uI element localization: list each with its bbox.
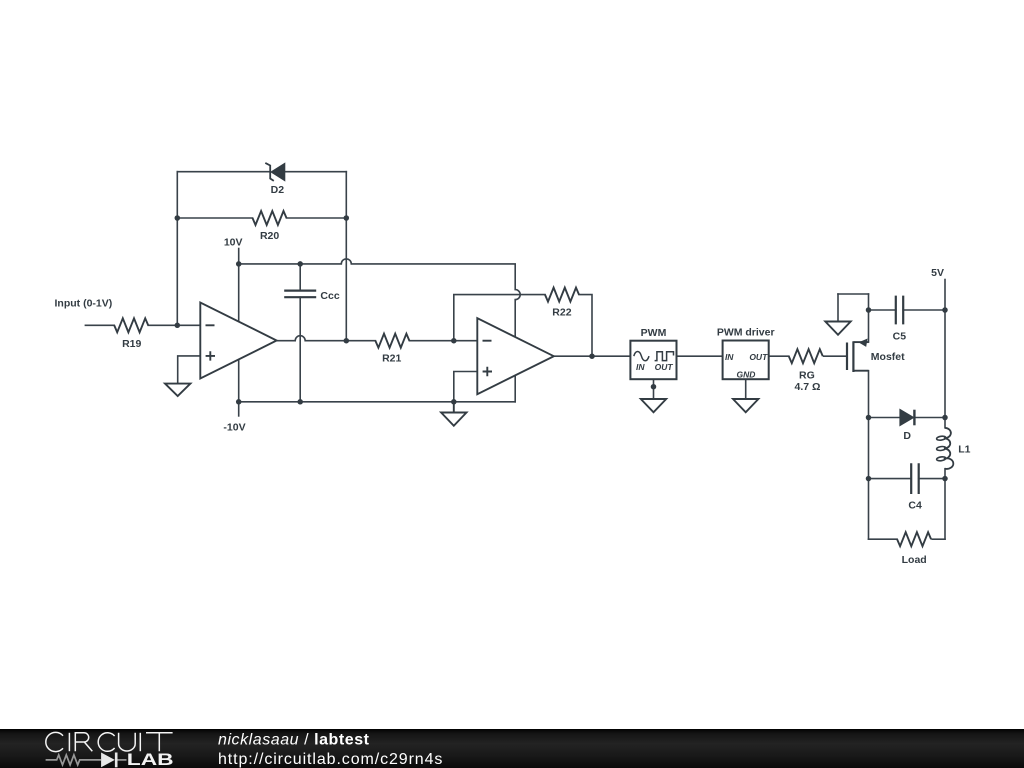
resistor R22	[545, 288, 579, 302]
node: 10V rail junction	[236, 261, 242, 267]
node: op-amp U2 inverting junction	[451, 338, 457, 344]
wire: positive supply rail with hop over feedback wire, corner down to op-amp U2 V+ with hop over R22 wire	[239, 259, 521, 402]
node: U2 plus / ground rail junction	[451, 399, 457, 405]
node: C5 / 5V rail junction	[942, 307, 948, 313]
svg-text:PWM driver: PWM driver	[717, 327, 775, 339]
svg-text:R20: R20	[260, 230, 279, 242]
node: op-amp U1 output feedback junction	[344, 338, 350, 344]
capacitor C4 plates	[911, 463, 919, 494]
logo CIRCUIT letter C	[46, 732, 173, 751]
resistor Load	[897, 532, 931, 546]
wire: top loop horizontal, left lead of D2	[177, 171, 270, 173]
svg-text:Load: Load	[902, 554, 927, 566]
capacitor Ccc plates	[284, 291, 316, 298]
wire: left vertical from diode row to C4 row	[868, 418, 870, 479]
op-amp U2 minus sign	[483, 340, 492, 342]
svg-text:-10V: -10V	[223, 422, 245, 434]
wire: Load left lead	[869, 538, 898, 540]
wire: ground stub below U2 plus rail node	[453, 402, 455, 413]
resistor R19	[114, 318, 148, 332]
PWM block sine symbol	[634, 351, 649, 360]
transistor Mosfet arrow	[860, 339, 867, 346]
wire: op-amp U1 non-inverting input to ground	[178, 356, 201, 384]
wire: right vertical from C4 row to Load row	[944, 479, 946, 540]
wire: PWM block to PWM driver block	[677, 355, 723, 357]
wire: op-amp U1 output with hop over Ccc wire, to feedback node	[277, 336, 347, 341]
transistor Mosfet drain stub	[853, 341, 868, 343]
wire: left feedback vertical (top loop to inverting input)	[176, 172, 178, 326]
svg-text:R22: R22	[552, 307, 571, 319]
wire: L1 bottom lead	[944, 469, 946, 479]
capacitor C5 plates	[896, 296, 903, 325]
op-amp U1 triangle	[200, 303, 276, 379]
node: C4 left junction	[866, 476, 872, 482]
svg-text:RG: RG	[799, 370, 815, 382]
node: R20 left junction	[175, 215, 181, 221]
logo CIRCUIT letter C	[98, 733, 114, 752]
node: C4 right junction	[942, 476, 948, 482]
wire: right feedback vertical from top loop down to op-amp1 output	[345, 172, 347, 341]
PWM block box	[630, 341, 676, 380]
wire: R20 right lead	[287, 217, 347, 219]
transistor Mosfet channel bar	[852, 341, 854, 372]
wire: input lead to R19	[85, 324, 114, 326]
wire: -10V label stub	[238, 402, 240, 416]
PWM driver block box	[723, 341, 769, 380]
op-amp U1 plus sign	[206, 351, 215, 360]
svg-text:OUT: OUT	[749, 352, 768, 362]
wire: op-amp U1 supply vertical (10V to -10V rail)	[238, 264, 240, 402]
svg-text:PWM: PWM	[641, 327, 667, 339]
svg-text:10V: 10V	[224, 237, 243, 249]
svg-text:L1: L1	[958, 444, 970, 456]
ground above mosfet	[825, 322, 850, 335]
svg-text:R21: R21	[382, 353, 401, 365]
logo CIRCUIT letter R	[75, 733, 92, 751]
svg-text:C5: C5	[893, 331, 907, 343]
node: diode / L1 junction	[942, 415, 948, 421]
diode D triangle	[900, 410, 913, 426]
node: source / diode junction	[866, 415, 872, 421]
wire: top loop horizontal, right lead of D2	[285, 171, 347, 173]
wire: C4 left lead	[869, 478, 912, 480]
wire: diode D left lead	[869, 417, 901, 419]
svg-text:Mosfet: Mosfet	[871, 351, 905, 363]
logo CIRCUIT letter I	[68, 733, 70, 751]
logo diode cathode bar	[115, 753, 118, 768]
logo lead after diode	[118, 759, 127, 761]
resistor R21	[375, 334, 409, 348]
svg-text:5V: 5V	[931, 267, 944, 279]
svg-text:IN: IN	[636, 362, 645, 372]
svg-text:Ccc: Ccc	[320, 290, 339, 302]
diode D cathode bar	[913, 410, 915, 426]
resistor RG	[789, 349, 823, 363]
wire: PWM driver GND pin to ground	[745, 379, 747, 399]
wire: PWM driver output to RG	[769, 355, 789, 357]
svg-text:R19: R19	[122, 338, 141, 350]
transistor Mosfet gate bar	[846, 343, 848, 371]
wire: Load right lead	[932, 538, 945, 540]
wire: 5V supply stub	[944, 280, 946, 311]
wire: left vertical from C4 row to Load row	[868, 479, 870, 540]
ground below op-amp U1 plus input	[165, 384, 190, 396]
wire: mosfet ground horizontal to drain vertical	[838, 293, 869, 295]
svg-text:GND: GND	[736, 369, 755, 379]
svg-text:Input (0-1V): Input (0-1V)	[55, 298, 113, 310]
footer bar background	[0, 729, 1024, 768]
wire: op-amp U2 output to PWM block	[554, 355, 631, 357]
ground below PWM driver block	[733, 399, 758, 412]
wire: R20 left lead	[177, 217, 252, 219]
node: Ccc top junction	[297, 261, 303, 267]
wire: op-amp U2 non-inverting input to bottom rail / ground	[454, 372, 478, 402]
zener diode D2 bar with bent ends	[265, 163, 274, 181]
wire: RG to mosfet gate	[824, 355, 847, 357]
wire: mosfet drain vertical	[868, 294, 870, 342]
wire: PWM block GND pin to ground	[653, 371, 655, 399]
wire: 5V rail down to diode row	[944, 310, 946, 418]
node: -10V rail junction	[236, 399, 242, 405]
logo diode symbol	[101, 753, 115, 768]
node: R20 right junction	[344, 215, 350, 221]
zener diode D2 triangle	[271, 164, 284, 181]
svg-text:nicklasaau / labtest: nicklasaau / labtest	[218, 732, 370, 749]
wire: bottom supply rail (-10V)	[239, 401, 516, 403]
svg-text:http://circuitlab.com/c29rn4s: http://circuitlab.com/c29rn4s	[218, 751, 443, 768]
logo resistor squiggle	[46, 755, 102, 765]
wire: mosfet top ground stub	[837, 294, 839, 322]
wire: mosfet source vertical down to diode row	[868, 371, 870, 418]
resistor R20	[253, 211, 287, 225]
logo CIRCUIT letter U	[119, 733, 136, 751]
node: mosfet drain / C5 junction	[866, 307, 872, 313]
wire: R22 right lead, corner down to op-amp U2 output	[579, 295, 592, 357]
wire: C5 right lead to 5V rail	[903, 309, 945, 311]
wire: L1 top lead	[944, 418, 946, 428]
svg-text:4.7 Ω: 4.7 Ω	[795, 381, 821, 393]
node: Ccc bottom junction	[297, 399, 303, 405]
svg-text:IN: IN	[725, 352, 734, 362]
node: PWM gnd pin junction	[651, 384, 657, 390]
wire: Ccc bottom lead	[299, 297, 301, 402]
wire: Ccc top lead	[299, 264, 301, 291]
ground below op-amp U2 plus input	[441, 413, 466, 426]
op-amp U2 plus sign	[483, 367, 492, 376]
wire: diode D right lead	[916, 417, 946, 419]
inductor L1 loop ellipses	[936, 436, 946, 462]
wire: C5 left lead	[869, 309, 896, 311]
svg-text:OUT: OUT	[655, 362, 674, 372]
node: inverting input junction U1	[175, 323, 181, 329]
ground below PWM block	[641, 399, 666, 412]
op-amp U2 triangle	[477, 318, 554, 394]
logo CIRCUIT letter I	[139, 733, 141, 751]
wire: R21 to inverting input of op-amp U2	[409, 340, 477, 342]
wire: op-amp U2 inverting node up and right to R22	[454, 295, 545, 341]
svg-text:D2: D2	[271, 184, 285, 196]
wire: C4 right lead	[919, 478, 945, 480]
svg-text:D: D	[903, 430, 911, 442]
wire: feedback node to R21	[346, 340, 375, 342]
inductor L1 coil	[944, 428, 953, 469]
node: op-amp U2 output junction	[589, 353, 595, 359]
svg-text:LAB: LAB	[127, 751, 174, 768]
wire: 10V supply stub	[238, 249, 240, 264]
svg-text:C4: C4	[908, 500, 922, 512]
logo CIRCUIT letter T	[146, 733, 173, 751]
wire: R19 to inverting input of op-amp U1	[148, 324, 200, 326]
PWM block square wave symbol	[655, 352, 674, 361]
transistor Mosfet source stub	[853, 370, 868, 372]
op-amp U1 minus sign	[206, 324, 215, 326]
